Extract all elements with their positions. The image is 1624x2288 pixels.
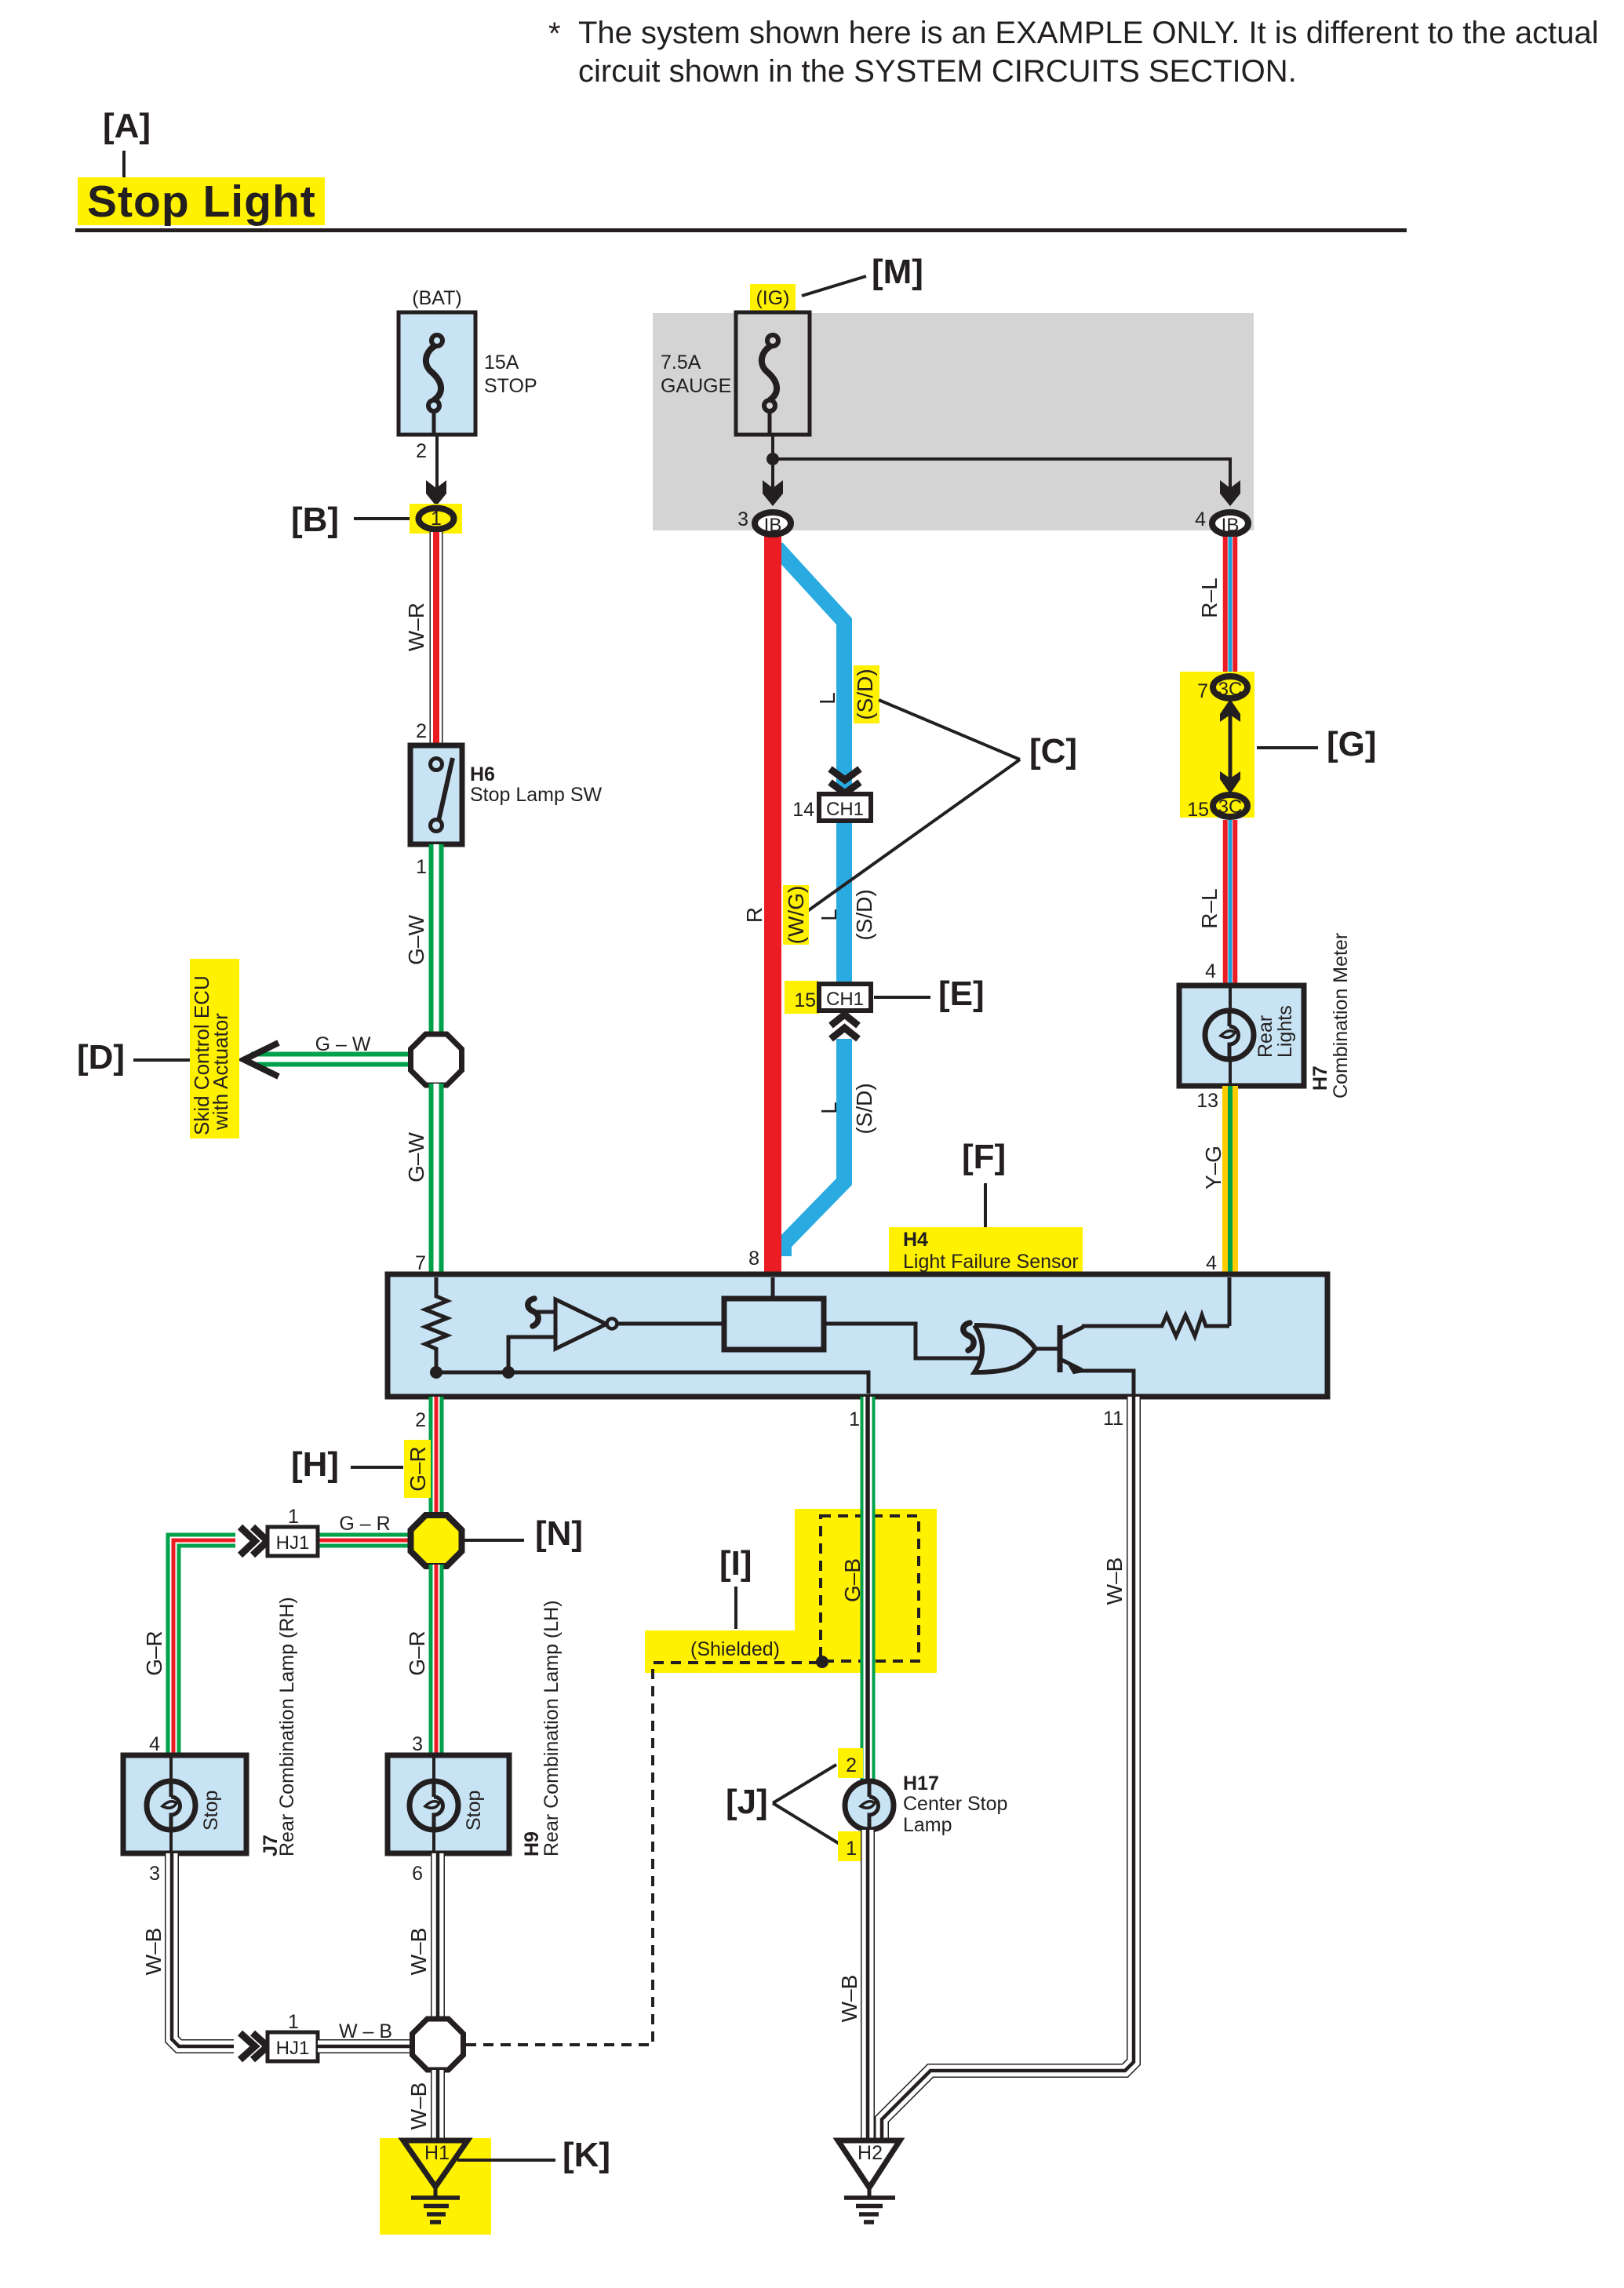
- combination meter H7 box: [1179, 986, 1304, 1086]
- ground junction octagon: [413, 2019, 464, 2070]
- svg-text:3: 3: [149, 1863, 160, 1885]
- wire fuse to node [B]: [435, 435, 439, 488]
- svg-text:(IG): (IG): [756, 287, 789, 309]
- svg-text:W–B: W–B: [837, 1975, 861, 2023]
- switch H6 Stop Lamp SW: [410, 745, 462, 844]
- svg-text:R–L: R–L: [1197, 888, 1222, 928]
- wire W-B HJ1 to ground octagon: [318, 2039, 413, 2053]
- fuse 15A STOP (BAT): [399, 287, 537, 435]
- wire R-L from 3C pin 15 to H7 pin 4: [1223, 820, 1238, 986]
- wire G-R from H4 pin2 to junction N: [429, 1397, 444, 1516]
- connector CH1 (pin 14): [819, 794, 871, 821]
- svg-text:R: R: [742, 907, 766, 923]
- chevron HJ1 (W-B): [234, 2029, 268, 2064]
- wire W-B from H17 pin1 to ground H2: [861, 1830, 875, 2140]
- fuse 7.5A GAUGE: [661, 312, 810, 435]
- svg-text:H4: H4: [903, 1229, 928, 1251]
- svg-text:Stop: Stop: [463, 1791, 485, 1831]
- G-R highlight label: [404, 1440, 431, 1498]
- svg-text:[M]: [M]: [872, 253, 923, 291]
- connector HJ1: [268, 1527, 318, 1556]
- wire G-R octagon N to H9: [429, 1565, 444, 1755]
- svg-text:(S/D): (S/D): [852, 889, 876, 940]
- svg-text:4: 4: [149, 1733, 160, 1755]
- wire G-W junction to H4 pin 7: [429, 1084, 444, 1274]
- svg-text:7: 7: [415, 1252, 426, 1274]
- shield dashed box: [821, 1516, 919, 1661]
- shielded highlight (L-shape): [645, 1509, 937, 1673]
- svg-text:15: 15: [1187, 799, 1209, 821]
- svg-text:L: L: [815, 692, 839, 705]
- svg-text:[J]: [J]: [726, 1783, 768, 1821]
- svg-text:IB: IB: [1222, 515, 1240, 536]
- wire W-B from H9 pin6 to ground octagon: [431, 1853, 445, 2020]
- svg-text:1: 1: [288, 2011, 299, 2033]
- svg-text:HJ1: HJ1: [276, 1532, 310, 1554]
- svg-text:Rear Combination Lamp (RH): Rear Combination Lamp (RH): [276, 1597, 298, 1856]
- op-amp U1 (buffer): [555, 1299, 606, 1349]
- title highlight: [78, 177, 325, 225]
- H4 label highlight: [889, 1227, 1083, 1273]
- junction octagon N (yellow): [411, 1515, 462, 1566]
- svg-text:G–R: G–R: [142, 1630, 166, 1676]
- wire W-B from J7 pin3 to HJ1: [172, 1853, 241, 2046]
- connector 3C (pin 15): [1213, 795, 1247, 817]
- svg-text:Stop Lamp SW: Stop Lamp SW: [470, 784, 603, 806]
- svg-text:Lamp: Lamp: [903, 1814, 952, 1836]
- svg-text:W–B: W–B: [141, 1928, 166, 1976]
- leader line [H]: [351, 1466, 403, 1469]
- svg-text:2: 2: [415, 1409, 426, 1431]
- wire G-R horizontal octagon N to HJ1: [318, 1533, 413, 1548]
- svg-text:H17: H17: [903, 1772, 939, 1794]
- ground H1 highlight: [380, 2138, 491, 2235]
- rear combination lamp J7 box: [123, 1755, 246, 1853]
- title rule: [75, 228, 1407, 232]
- wire fuse to junction dot: [771, 435, 774, 488]
- svg-text:8: 8: [748, 1248, 759, 1270]
- svg-text:1: 1: [416, 856, 427, 878]
- leader line [I]: [734, 1587, 737, 1629]
- OR gate: [974, 1325, 1036, 1372]
- comparator hook input: [536, 1310, 555, 1314]
- shield dashed line to ground octagon: [466, 1663, 821, 2045]
- svg-text:W–B: W–B: [406, 1928, 431, 1976]
- svg-text:G – R: G – R: [339, 1513, 390, 1535]
- svg-text:H1: H1: [424, 2142, 450, 2164]
- svg-text:15A: 15A: [484, 352, 519, 373]
- svg-text:IB: IB: [764, 515, 782, 536]
- svg-text:Rear: Rear: [1254, 1015, 1276, 1058]
- svg-text:CH1: CH1: [826, 799, 864, 820]
- svg-text:7.5A: 7.5A: [661, 352, 701, 373]
- svg-text:STOP: STOP: [484, 375, 537, 397]
- chevron out of CH1 pin 15: [831, 1015, 858, 1026]
- svg-text:Stop: Stop: [200, 1791, 222, 1831]
- pin 1 highlight of H17: [838, 1831, 863, 1861]
- ground H2 symbol: [838, 2140, 900, 2222]
- svg-text:1: 1: [288, 1506, 299, 1528]
- svg-text:W – B: W – B: [339, 2020, 392, 2042]
- wire G-R from HJ1 to J7 (corner): [173, 1540, 241, 1755]
- wire dot to IB4: [773, 459, 1230, 488]
- arrowhead to skid ECU: [244, 1043, 279, 1077]
- svg-text:3: 3: [737, 508, 748, 530]
- svg-text:W–R: W–R: [404, 603, 428, 651]
- svg-text:1: 1: [431, 508, 442, 530]
- wire L (S/D) blue middle segment: [836, 821, 852, 984]
- svg-text:3C: 3C: [1218, 796, 1243, 818]
- svg-text:[E]: [E]: [938, 975, 985, 1013]
- svg-text:H2: H2: [858, 2142, 883, 2164]
- connector HJ1 (W-B): [268, 2032, 318, 2061]
- svg-text:[G]: [G]: [1327, 725, 1377, 763]
- svg-text:[K]: [K]: [563, 2136, 610, 2174]
- svg-text:Center Stop: Center Stop: [903, 1793, 1007, 1815]
- svg-text:2: 2: [416, 440, 427, 462]
- svg-text:HJ1: HJ1: [276, 2038, 310, 2059]
- svg-text:13: 13: [1196, 1090, 1218, 1112]
- wire OR to transistor base: [1036, 1347, 1060, 1351]
- (IG) highlight: [750, 284, 796, 312]
- wire L (S/D) blue lower segment: [784, 1039, 844, 1256]
- wire emitter to H4 pin 11: [1080, 1371, 1134, 1394]
- svg-text:*: *: [548, 16, 561, 51]
- (W/G) highlight: [783, 885, 809, 945]
- svg-text:7: 7: [1197, 680, 1208, 702]
- wire resistor to H4 pin 4: [1228, 1277, 1232, 1326]
- svg-text:H6: H6: [470, 763, 495, 785]
- wire G-W from H6 pin1 to junction: [429, 844, 444, 1037]
- junction octagon (stop light wire split): [411, 1034, 462, 1085]
- svg-text:GAUGE: GAUGE: [661, 375, 731, 397]
- arrow into IB3: [763, 480, 783, 506]
- junction block (gray): [653, 313, 1254, 530]
- chevron HJ1 (G-R): [235, 1525, 268, 1557]
- skid control ECU highlight: [190, 959, 239, 1139]
- svg-text:(BAT): (BAT): [412, 287, 461, 309]
- wire relay to OR gate: [824, 1324, 979, 1358]
- svg-text:G – W: G – W: [315, 1033, 371, 1055]
- svg-text:G–W: G–W: [404, 1132, 428, 1182]
- leader line CH1-15 to [E]: [874, 996, 930, 999]
- svg-text:H7: H7: [1309, 1066, 1331, 1091]
- svg-text:[B]: [B]: [291, 501, 339, 539]
- arrow into IB4: [1220, 480, 1240, 506]
- svg-text:3C: 3C: [1218, 679, 1243, 700]
- wire dot B to comparator input: [508, 1337, 555, 1372]
- ground H1 symbol: [403, 2140, 468, 2222]
- svg-text:4: 4: [1206, 1252, 1217, 1274]
- svg-text:1: 1: [846, 1838, 857, 1860]
- connector node 1: [419, 508, 454, 530]
- pin 15 highlight: [785, 981, 819, 1014]
- wire W-B from H4 pin11 to ground H2: [882, 1397, 1134, 2140]
- svg-text:W–B: W–B: [1102, 1558, 1127, 1605]
- connector IB (pin 4): [1212, 512, 1248, 534]
- arrow into node 1: [426, 480, 446, 506]
- svg-text:11: 11: [1103, 1408, 1123, 1430]
- wire L (S/D) shielded blue upper segment: [777, 548, 844, 794]
- wire Y-G from H7 pin13 to H4 pin 4: [1222, 1086, 1238, 1274]
- junction dot A: [430, 1366, 442, 1379]
- svg-text:R–L: R–L: [1197, 577, 1222, 618]
- svg-text:[A]: [A]: [103, 107, 151, 145]
- leader line from [A] to title: [122, 151, 126, 187]
- svg-text:G–R: G–R: [405, 1630, 429, 1676]
- svg-text:L: L: [817, 909, 841, 921]
- resistor R2 (output): [1157, 1315, 1229, 1336]
- svg-text:L: L: [817, 1102, 841, 1114]
- (S/D) highlight upper: [854, 665, 879, 723]
- lamp symbol stop (J7): [147, 1781, 195, 1830]
- svg-text:G–W: G–W: [404, 915, 428, 965]
- svg-text:W–B: W–B: [406, 2082, 431, 2130]
- wire op-amp to relay: [617, 1322, 724, 1326]
- lamp symbol rear lights: [1205, 1011, 1254, 1059]
- svg-text:15: 15: [794, 989, 816, 1011]
- connector CH1 (pin 15): [819, 984, 871, 1011]
- connector IB (pin 3): [755, 512, 791, 534]
- leader line [D]: [133, 1058, 190, 1062]
- OR gate hook input: [963, 1323, 974, 1350]
- svg-text:14: 14: [792, 799, 814, 821]
- svg-text:6: 6: [412, 1863, 423, 1885]
- resistor R (H4 pin7 input): [425, 1277, 447, 1372]
- wire R thick red from IB3 to H4 pin 8: [764, 530, 781, 1274]
- relay coil box: [724, 1299, 824, 1350]
- chevron into CH1 pin 14: [830, 769, 860, 780]
- lamp symbol stop (H9): [410, 1781, 458, 1830]
- leader line [C] to (W/G): [807, 760, 1020, 912]
- wire R-L from IB4 to 3C pin 7: [1223, 537, 1238, 675]
- svg-text:1: 1: [849, 1408, 860, 1430]
- wire H4 pin8 to relay: [771, 1277, 775, 1299]
- internal bus wire: [436, 1372, 868, 1394]
- junction dot: [766, 453, 779, 465]
- transistor Q1: [1060, 1325, 1083, 1372]
- svg-text:Light Failure Sensor: Light Failure Sensor: [903, 1251, 1079, 1273]
- light failure sensor H4 box: [388, 1274, 1327, 1397]
- leader line [K]: [457, 2159, 555, 2162]
- svg-text:[H]: [H]: [291, 1445, 339, 1484]
- svg-text:G–R: G–R: [406, 1446, 430, 1492]
- wire collector to resistor: [1082, 1324, 1157, 1328]
- wire W-R from node 1 to H6 pin 2: [430, 532, 443, 745]
- svg-text:Rear Combination Lamp (LH): Rear Combination Lamp (LH): [541, 1600, 563, 1856]
- svg-text:[I]: [I]: [719, 1544, 752, 1583]
- leader line [F] to H4 label: [984, 1183, 987, 1229]
- shield junction dot: [816, 1656, 828, 1668]
- svg-text:H9: H9: [521, 1831, 543, 1856]
- svg-text:4: 4: [1195, 508, 1206, 530]
- leader lines [J]: [773, 1765, 839, 1844]
- pin 2 highlight of H17: [838, 1748, 863, 1778]
- connector 3C highlight [G]: [1180, 672, 1254, 818]
- svg-text:[N]: [N]: [535, 1514, 583, 1553]
- double arrow between 3C pins: [1229, 703, 1233, 791]
- leader line [B] to node 1: [354, 517, 416, 520]
- center stop lamp H17: [845, 1781, 894, 1830]
- svg-text:CH1: CH1: [826, 989, 864, 1010]
- wire W-B octagon to ground H1: [431, 2070, 445, 2140]
- wire G-B from H4 pin1 to H17: [861, 1397, 876, 1783]
- svg-text:with Actuator: with Actuator: [209, 1013, 232, 1131]
- wire G-W branch to skid ECU: [251, 1052, 428, 1067]
- svg-text:3: 3: [412, 1733, 423, 1755]
- svg-text:Lights: Lights: [1274, 1005, 1296, 1058]
- leader line [N]: [463, 1539, 524, 1542]
- svg-text:circuit shown in the SYSTEM CI: circuit shown in the SYSTEM CIRCUITS SEC…: [578, 54, 1297, 89]
- svg-text:[C]: [C]: [1029, 732, 1077, 771]
- svg-text:Y–G: Y–G: [1201, 1146, 1225, 1190]
- svg-text:(S/D): (S/D): [853, 669, 877, 720]
- svg-text:4: 4: [1205, 960, 1216, 982]
- svg-text:Combination Meter: Combination Meter: [1330, 933, 1352, 1098]
- leader line [G]: [1257, 746, 1318, 749]
- svg-text:The system shown here is an EX: The system shown here is an EXAMPLE ONLY…: [578, 16, 1599, 50]
- svg-text:G–B: G–B: [840, 1558, 865, 1602]
- svg-text:Stop Light: Stop Light: [87, 177, 316, 227]
- node 1 highlight: [410, 504, 462, 534]
- leader line (S/D) to [C]: [879, 700, 1020, 760]
- rear combination lamp H9 box: [388, 1755, 509, 1853]
- junction dot B: [502, 1366, 515, 1379]
- svg-text:[D]: [D]: [77, 1038, 125, 1077]
- svg-text:2: 2: [846, 1754, 857, 1776]
- connector 3C (pin 7): [1213, 676, 1247, 698]
- svg-text:[F]: [F]: [962, 1138, 1006, 1176]
- leader line [M] to (IG): [802, 276, 866, 296]
- svg-text:2: 2: [416, 720, 427, 742]
- svg-text:(W/G): (W/G): [784, 886, 808, 945]
- svg-text:(Shielded): (Shielded): [690, 1638, 780, 1660]
- svg-text:(S/D): (S/D): [852, 1083, 876, 1134]
